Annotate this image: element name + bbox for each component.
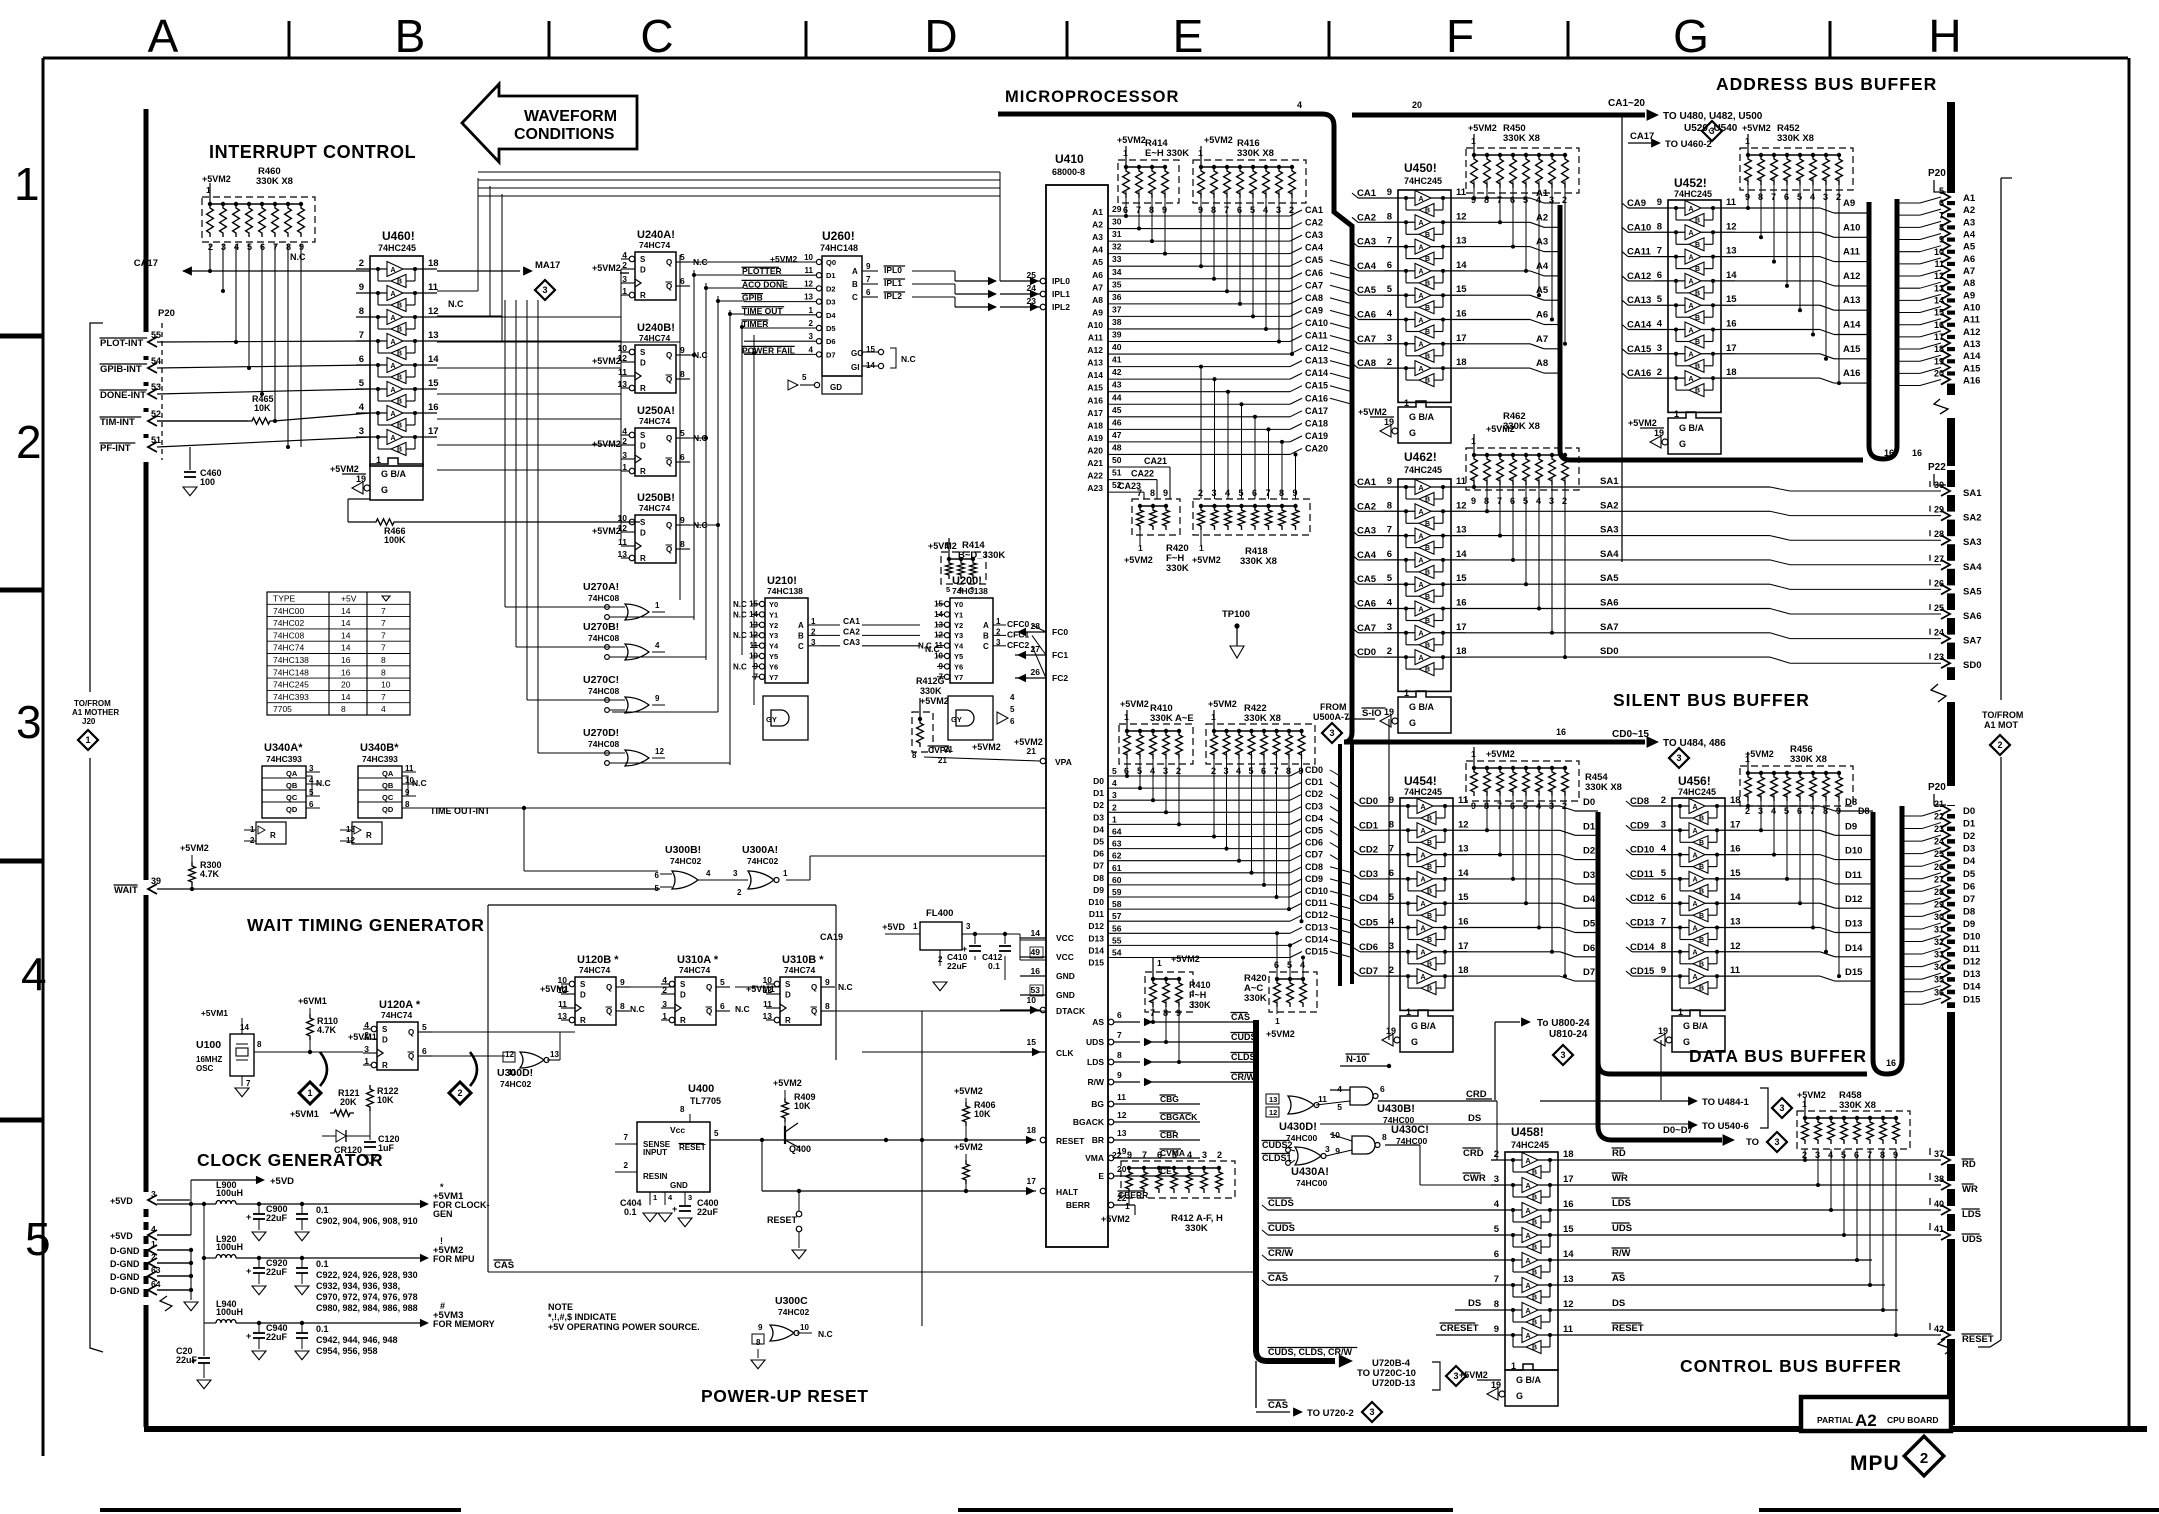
- svg-text:D15: D15: [1845, 967, 1863, 978]
- svg-text:CA7: CA7: [1305, 280, 1323, 290]
- svg-text:B: B: [1532, 1170, 1537, 1177]
- svg-text:50: 50: [1112, 455, 1122, 465]
- svg-text:CA14: CA14: [1305, 368, 1328, 378]
- svg-text:54: 54: [1112, 948, 1122, 958]
- svg-text:CPU BOARD: CPU BOARD: [1887, 1415, 1938, 1425]
- svg-text:1: 1: [811, 617, 816, 626]
- svg-text:G: G: [1516, 1391, 1523, 1401]
- svg-text:10K: 10K: [254, 403, 271, 413]
- svg-text:1: 1: [653, 1193, 657, 1202]
- svg-text:CD1: CD1: [1359, 820, 1379, 831]
- svg-text:CD10: CD10: [1630, 845, 1654, 856]
- svg-text:D4: D4: [1963, 856, 1976, 867]
- svg-text:19: 19: [1386, 1026, 1396, 1036]
- svg-text:3: 3: [809, 332, 814, 341]
- svg-text:E~H 330K: E~H 330K: [1145, 148, 1189, 159]
- svg-text:G: G: [1679, 439, 1686, 449]
- svg-text:A4: A4: [1092, 245, 1103, 255]
- svg-text:Q400: Q400: [789, 1144, 811, 1154]
- svg-text:32: 32: [1934, 937, 1944, 947]
- svg-text:TYPE: TYPE: [273, 594, 296, 604]
- svg-text:62: 62: [1112, 851, 1122, 861]
- svg-text:B: B: [1427, 937, 1432, 944]
- svg-text:SA1: SA1: [1600, 476, 1619, 487]
- svg-text:13: 13: [1934, 283, 1944, 293]
- svg-text:13: 13: [1726, 246, 1737, 257]
- svg-text:U460!: U460!: [382, 229, 415, 243]
- svg-text:4: 4: [21, 948, 47, 1000]
- svg-text:D5: D5: [1583, 919, 1596, 930]
- svg-text:D: D: [785, 991, 791, 1000]
- svg-text:A11: A11: [1088, 333, 1103, 343]
- svg-text:27: 27: [1934, 554, 1944, 564]
- svg-text:11: 11: [1117, 1092, 1126, 1102]
- svg-text:Q: Q: [666, 434, 672, 443]
- svg-text:4: 4: [1494, 1199, 1500, 1210]
- svg-text:9: 9: [825, 977, 830, 987]
- svg-text:11: 11: [1726, 197, 1737, 208]
- svg-text:8: 8: [680, 369, 685, 379]
- svg-text:A15: A15: [1963, 363, 1981, 374]
- svg-text:74HC74: 74HC74: [579, 965, 610, 975]
- svg-text:8: 8: [1387, 500, 1392, 511]
- svg-text:CD11: CD11: [1630, 869, 1654, 880]
- svg-text:R: R: [640, 554, 646, 563]
- svg-text:D10: D10: [1088, 897, 1104, 907]
- svg-text:A12: A12: [1963, 327, 1980, 338]
- svg-text:TO/FROM: TO/FROM: [74, 699, 111, 708]
- svg-text:A14: A14: [1963, 351, 1981, 362]
- svg-text:40: 40: [1112, 342, 1122, 352]
- svg-text:8: 8: [257, 1040, 262, 1049]
- svg-text:G B/A: G B/A: [1679, 423, 1705, 433]
- svg-text:D15: D15: [1963, 994, 1981, 1005]
- svg-text:14: 14: [341, 618, 351, 628]
- svg-text:CR/W: CR/W: [1268, 1248, 1293, 1259]
- svg-text:DS: DS: [1612, 1298, 1625, 1309]
- svg-text:58: 58: [1112, 899, 1122, 909]
- svg-text:11: 11: [1730, 965, 1741, 976]
- svg-text:B: B: [1427, 961, 1432, 968]
- svg-text:UDS: UDS: [1612, 1223, 1632, 1234]
- svg-text:G B/A: G B/A: [1683, 1021, 1709, 1031]
- svg-text:D6: D6: [1583, 943, 1595, 954]
- svg-text:SA2: SA2: [1600, 500, 1618, 511]
- svg-text:A7: A7: [1963, 266, 1975, 277]
- svg-text:A22: A22: [1087, 471, 1103, 481]
- svg-text:BG: BG: [1091, 1099, 1104, 1109]
- svg-text:1: 1: [1275, 1016, 1280, 1026]
- svg-text:1: 1: [622, 462, 627, 472]
- svg-text:A: A: [1419, 485, 1424, 492]
- svg-text:B: B: [1425, 353, 1430, 360]
- svg-text:CA4: CA4: [1357, 550, 1377, 561]
- svg-text:CA2: CA2: [843, 626, 860, 636]
- svg-text:+5VM2: +5VM2: [770, 254, 797, 264]
- svg-text:Vcc: Vcc: [670, 1125, 685, 1135]
- svg-text:12: 12: [428, 306, 439, 317]
- svg-text:10: 10: [804, 253, 813, 262]
- svg-text:1: 1: [1511, 1361, 1516, 1371]
- svg-text:22uF: 22uF: [266, 1267, 288, 1277]
- svg-text:CA3: CA3: [1305, 230, 1323, 240]
- svg-text:P22: P22: [1928, 462, 1946, 473]
- svg-text:U270C!: U270C!: [583, 674, 619, 686]
- svg-text:+5VM2: +5VM2: [1014, 737, 1043, 747]
- svg-text:18: 18: [1027, 1125, 1037, 1135]
- svg-text:B: B: [1699, 816, 1704, 823]
- svg-text:CUDS: CUDS: [1231, 1032, 1257, 1042]
- svg-text:7: 7: [1657, 246, 1662, 257]
- svg-text:CD4: CD4: [1359, 893, 1379, 904]
- svg-text:CA15: CA15: [1305, 381, 1328, 391]
- svg-text:8: 8: [405, 800, 410, 809]
- svg-text:+5VD: +5VD: [270, 1176, 294, 1187]
- svg-text:8: 8: [680, 539, 685, 549]
- svg-text:B: B: [395, 10, 426, 62]
- svg-text:74HC74: 74HC74: [639, 416, 670, 426]
- svg-text:B: B: [1532, 1245, 1537, 1252]
- svg-text:B: B: [1532, 1270, 1537, 1277]
- svg-text:CA4: CA4: [1357, 261, 1377, 272]
- svg-text:LDS: LDS: [1962, 1209, 1981, 1220]
- svg-text:F: F: [1446, 10, 1474, 62]
- svg-text:2: 2: [1217, 1150, 1222, 1160]
- svg-text:74HC393: 74HC393: [362, 754, 398, 764]
- svg-text:8: 8: [381, 667, 386, 677]
- svg-text:3: 3: [309, 764, 314, 773]
- svg-text:B: B: [1695, 291, 1700, 298]
- svg-text:CA12: CA12: [1627, 271, 1651, 282]
- svg-text:QA: QA: [286, 769, 298, 778]
- svg-text:CD15: CD15: [1630, 966, 1655, 977]
- svg-text:12: 12: [1269, 1108, 1277, 1117]
- svg-text:CA17: CA17: [1630, 131, 1654, 142]
- svg-text:CLOCK GENERATOR: CLOCK GENERATOR: [197, 1150, 383, 1170]
- svg-text:Q: Q: [706, 1007, 712, 1016]
- svg-text:CA8: CA8: [1357, 358, 1376, 369]
- svg-text:B: B: [1532, 1195, 1537, 1202]
- svg-text:SA5: SA5: [1600, 573, 1619, 584]
- svg-text:9: 9: [758, 1323, 763, 1332]
- svg-text:A: A: [1419, 269, 1424, 276]
- svg-text:A: A: [1689, 230, 1694, 237]
- svg-text:330K: 330K: [1166, 563, 1189, 574]
- svg-text:A: A: [391, 315, 396, 322]
- svg-text:AS: AS: [1092, 1017, 1104, 1027]
- svg-text:D6: D6: [1093, 849, 1104, 859]
- svg-text:1: 1: [1124, 712, 1129, 722]
- svg-text:Q: Q: [706, 983, 712, 992]
- svg-text:0.1: 0.1: [624, 1207, 637, 1217]
- svg-text:CA10: CA10: [1627, 222, 1651, 233]
- svg-text:LDS: LDS: [1087, 1057, 1104, 1067]
- svg-text:0.1: 0.1: [316, 1324, 329, 1334]
- svg-text:1: 1: [1674, 409, 1679, 419]
- svg-text:FC0: FC0: [1052, 627, 1068, 637]
- svg-text:35: 35: [1934, 975, 1944, 985]
- svg-text:+5VM2: +5VM2: [1208, 699, 1237, 709]
- svg-text:A: A: [1419, 606, 1424, 613]
- svg-text:74HC245: 74HC245: [273, 680, 309, 690]
- svg-text:SA2: SA2: [1963, 513, 1981, 524]
- svg-text:24: 24: [1934, 628, 1944, 638]
- svg-text:D3: D3: [1583, 870, 1595, 881]
- svg-text:A: A: [1419, 317, 1424, 324]
- svg-text:CD8: CD8: [1630, 796, 1649, 807]
- svg-text:U300B!: U300B!: [665, 844, 701, 856]
- svg-text:6: 6: [309, 800, 314, 809]
- svg-text:U810-24: U810-24: [1549, 1029, 1588, 1040]
- svg-text:3: 3: [359, 426, 364, 437]
- svg-text:GI: GI: [851, 363, 859, 372]
- svg-text:SA7: SA7: [1600, 622, 1618, 633]
- svg-text:A16: A16: [1963, 376, 1980, 387]
- svg-text:FC2: FC2: [1052, 673, 1068, 683]
- svg-text:B: B: [1699, 986, 1704, 993]
- svg-text:16: 16: [341, 667, 351, 677]
- svg-text:C: C: [640, 10, 673, 62]
- svg-text:A7: A7: [1536, 334, 1548, 345]
- svg-text:N.C: N.C: [448, 299, 464, 309]
- svg-text:D8: D8: [1858, 806, 1870, 816]
- svg-text:D10: D10: [1963, 932, 1980, 943]
- svg-text:17: 17: [1730, 819, 1741, 830]
- svg-text:A14: A14: [1843, 320, 1861, 331]
- svg-text:R: R: [640, 384, 646, 393]
- svg-text:330K: 330K: [920, 686, 942, 696]
- svg-text:12: 12: [749, 631, 758, 640]
- svg-text:+5VM2: +5VM2: [1117, 135, 1146, 145]
- svg-text:U300A!: U300A!: [742, 844, 778, 856]
- svg-text:7: 7: [1387, 525, 1392, 536]
- svg-text:10K: 10K: [377, 1095, 394, 1105]
- svg-text:A11: A11: [1963, 315, 1981, 326]
- svg-text:B: B: [397, 279, 402, 286]
- svg-text:34: 34: [1934, 962, 1944, 972]
- svg-text:74HC02: 74HC02: [273, 618, 304, 628]
- svg-text:B: B: [1695, 363, 1700, 370]
- svg-text:11: 11: [750, 641, 759, 650]
- svg-text:+5VM2: +5VM2: [592, 356, 621, 366]
- svg-text:DTACK: DTACK: [1056, 1006, 1086, 1016]
- svg-text:D-GND: D-GND: [110, 1246, 140, 1256]
- svg-text:Q: Q: [666, 375, 672, 384]
- svg-text:4: 4: [359, 402, 365, 413]
- svg-text:+5VM2: +5VM2: [1358, 407, 1387, 417]
- svg-text:1: 1: [14, 158, 40, 210]
- svg-text:1: 1: [1198, 148, 1203, 158]
- svg-text:13: 13: [1730, 917, 1741, 928]
- svg-text:D: D: [640, 529, 646, 538]
- svg-text:16MHZ: 16MHZ: [196, 1055, 222, 1064]
- svg-text:55: 55: [1112, 935, 1122, 945]
- svg-text:Y5: Y5: [769, 652, 778, 661]
- svg-text:CD0~15: CD0~15: [1612, 729, 1649, 740]
- svg-text:7: 7: [381, 606, 386, 616]
- svg-text:330K X8: 330K X8: [1790, 754, 1827, 765]
- svg-text:4: 4: [655, 641, 660, 650]
- svg-text:A19: A19: [1087, 433, 1103, 443]
- svg-text:CD6: CD6: [1359, 942, 1378, 953]
- svg-text:A: A: [391, 363, 396, 370]
- svg-text:40: 40: [1934, 1199, 1944, 1209]
- svg-text:CA2: CA2: [1357, 212, 1376, 223]
- svg-text:74HC08: 74HC08: [273, 630, 304, 640]
- svg-text:14: 14: [1726, 270, 1737, 281]
- svg-text:10K: 10K: [794, 1101, 811, 1111]
- svg-text:PLOT-INT: PLOT-INT: [100, 338, 143, 349]
- svg-text:+5V: +5V: [341, 594, 357, 604]
- svg-text:3: 3: [1779, 1103, 1784, 1113]
- svg-text:8: 8: [1494, 1299, 1499, 1310]
- svg-text:A: A: [391, 435, 396, 442]
- svg-text:A: A: [1419, 293, 1424, 300]
- svg-text:12: 12: [934, 631, 943, 640]
- svg-text:CD14: CD14: [1630, 942, 1655, 953]
- svg-text:12: 12: [1730, 941, 1741, 952]
- svg-text:2: 2: [1997, 740, 2002, 750]
- svg-text:25: 25: [1027, 270, 1037, 280]
- svg-text:14: 14: [341, 630, 351, 640]
- svg-text:A: A: [1693, 828, 1698, 835]
- svg-text:24: 24: [1934, 837, 1944, 847]
- svg-text:17: 17: [1458, 941, 1469, 952]
- svg-text:A: A: [1689, 352, 1694, 359]
- svg-text:57: 57: [1112, 911, 1122, 921]
- svg-text:3: 3: [1676, 753, 1681, 763]
- svg-text:TIM-INT: TIM-INT: [100, 417, 135, 428]
- svg-text:A18: A18: [1087, 420, 1103, 430]
- svg-text:+5VM2: +5VM2: [592, 263, 621, 273]
- svg-text:FROM: FROM: [1320, 702, 1347, 712]
- svg-text:4: 4: [1661, 844, 1667, 855]
- svg-text:74HC02: 74HC02: [778, 1307, 809, 1317]
- svg-text:D5: D5: [826, 324, 836, 333]
- svg-text:J20: J20: [82, 717, 96, 726]
- svg-text:D4: D4: [1093, 824, 1104, 834]
- svg-text:N.C: N.C: [733, 631, 747, 640]
- svg-text:QB: QB: [382, 781, 394, 790]
- svg-text:12: 12: [804, 279, 813, 288]
- svg-text:330K X8: 330K X8: [256, 176, 293, 187]
- svg-text:53: 53: [1031, 985, 1041, 995]
- svg-text:A5: A5: [1963, 242, 1976, 253]
- svg-text:1: 1: [809, 306, 814, 315]
- svg-text:74HC148: 74HC148: [820, 243, 858, 253]
- svg-text:16: 16: [341, 655, 351, 665]
- svg-text:A: A: [1526, 1158, 1531, 1165]
- svg-text:3: 3: [1494, 1174, 1499, 1185]
- svg-text:A3: A3: [1963, 217, 1975, 228]
- svg-text:330K X8: 330K X8: [1839, 1100, 1876, 1111]
- svg-text:2: 2: [996, 627, 1001, 636]
- svg-text:BERR: BERR: [1066, 1200, 1090, 1210]
- svg-text:G: G: [1683, 1037, 1690, 1047]
- svg-text:1: 1: [655, 601, 660, 610]
- svg-text:6: 6: [655, 871, 660, 880]
- svg-text:D: D: [924, 10, 957, 62]
- svg-text:U270D!: U270D!: [583, 727, 619, 739]
- svg-text:CD6: CD6: [1305, 838, 1323, 848]
- svg-text:Q: Q: [666, 282, 672, 291]
- svg-text:74HC245: 74HC245: [1511, 1140, 1549, 1150]
- svg-text:74HC138: 74HC138: [273, 655, 309, 665]
- svg-text:D10: D10: [1845, 846, 1862, 857]
- svg-text:A: A: [1421, 901, 1426, 908]
- svg-text:D2: D2: [826, 284, 836, 293]
- svg-text:4: 4: [622, 250, 627, 260]
- svg-text:22: 22: [1112, 1150, 1122, 1160]
- svg-text:B: B: [1695, 388, 1700, 395]
- svg-text:Y3: Y3: [954, 631, 963, 640]
- svg-text:6: 6: [720, 1001, 725, 1011]
- svg-text:A2: A2: [1536, 212, 1548, 223]
- svg-text:SA6: SA6: [1600, 598, 1618, 609]
- svg-text:31: 31: [1934, 925, 1944, 935]
- svg-text:74HC74: 74HC74: [273, 643, 304, 653]
- svg-text:C932, 934, 936, 938,: C932, 934, 936, 938,: [316, 1281, 400, 1291]
- svg-text:U260!: U260!: [822, 229, 855, 243]
- svg-text:G B/A: G B/A: [381, 469, 407, 479]
- svg-text:5: 5: [802, 373, 807, 382]
- svg-text:D11: D11: [1089, 909, 1104, 919]
- svg-text:6: 6: [1939, 198, 1944, 208]
- svg-text:A13: A13: [1843, 295, 1860, 306]
- svg-text:6: 6: [359, 354, 364, 365]
- svg-text:1: 1: [1471, 749, 1476, 759]
- svg-text:37: 37: [1934, 1149, 1944, 1159]
- svg-text:CRD: CRD: [1463, 1148, 1484, 1159]
- svg-text:51: 51: [1112, 468, 1122, 478]
- svg-text:16: 16: [1556, 727, 1566, 737]
- svg-text:C: C: [983, 642, 989, 651]
- svg-text:5: 5: [680, 252, 685, 262]
- svg-text:A: A: [1689, 327, 1694, 334]
- svg-text:A: A: [1419, 631, 1424, 638]
- svg-text:15: 15: [1934, 308, 1944, 318]
- svg-text:B: B: [1699, 937, 1704, 944]
- svg-text:RD: RD: [1962, 1159, 1976, 1170]
- svg-text:CD15: CD15: [1305, 947, 1328, 957]
- svg-text:+5VM2: +5VM2: [1192, 555, 1221, 565]
- svg-text:A: A: [1689, 206, 1694, 213]
- svg-text:8: 8: [1117, 1050, 1122, 1060]
- svg-text:CD7: CD7: [1305, 850, 1323, 860]
- svg-text:+5VM2: +5VM2: [1468, 123, 1497, 133]
- svg-text:13: 13: [550, 1050, 559, 1059]
- svg-text:B: B: [1425, 497, 1430, 504]
- svg-text:6: 6: [1657, 270, 1662, 281]
- svg-text:RESET: RESET: [767, 1215, 798, 1225]
- svg-text:D0: D0: [1963, 806, 1975, 817]
- svg-text:+5VM2: +5VM2: [1486, 749, 1515, 759]
- svg-text:56: 56: [1112, 923, 1122, 933]
- svg-text:42: 42: [1112, 367, 1122, 377]
- svg-text:13: 13: [1269, 1095, 1277, 1104]
- svg-text:Q: Q: [408, 1028, 414, 1037]
- svg-text:CA6: CA6: [1305, 268, 1323, 278]
- svg-text:G: G: [1673, 10, 1709, 62]
- svg-text:3: 3: [1774, 1137, 1779, 1147]
- svg-text:D14: D14: [1963, 982, 1981, 993]
- svg-text:+5VM2: +5VM2: [592, 439, 621, 449]
- svg-text:6: 6: [1157, 1150, 1162, 1160]
- svg-text:2: 2: [622, 436, 627, 446]
- svg-text:15: 15: [866, 345, 875, 354]
- svg-text:GY: GY: [766, 715, 777, 724]
- svg-text:3: 3: [966, 922, 971, 931]
